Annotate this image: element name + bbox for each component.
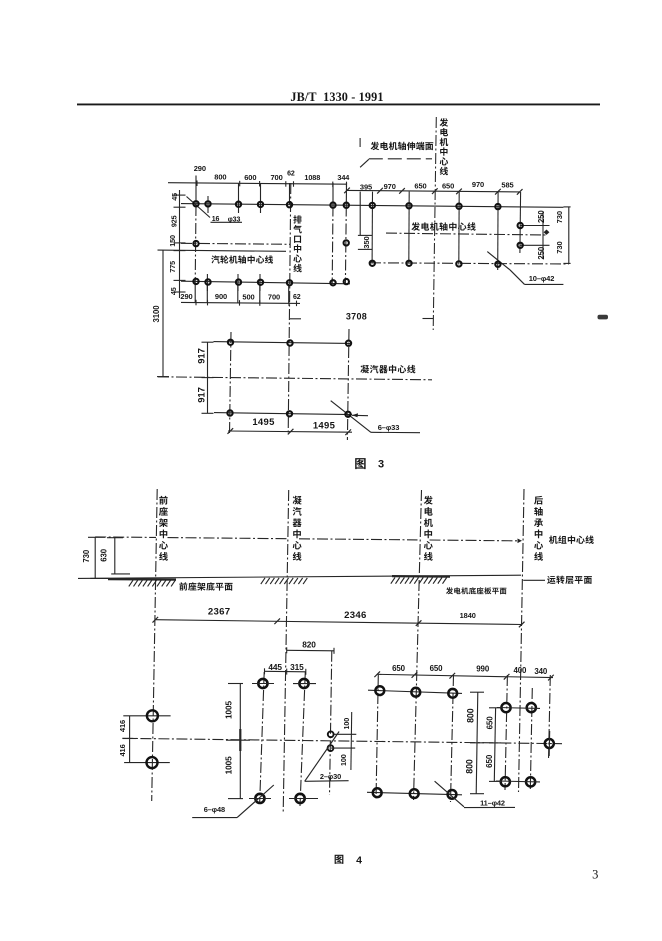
fig3 dim label 730 bottom bbox=[555, 241, 564, 253]
svg-text:2–φ30: 2–φ30 bbox=[320, 772, 341, 781]
fig3 leader shaft end face bbox=[360, 138, 432, 167]
fig4 leader 6-phi48 bbox=[192, 785, 274, 818]
fig4 far right hole bbox=[545, 731, 554, 756]
svg-text:650: 650 bbox=[430, 664, 444, 673]
header rule bbox=[77, 103, 600, 105]
fig3 hole column x520 bbox=[519, 192, 522, 253]
svg-text:970: 970 bbox=[384, 182, 396, 191]
svg-text:500: 500 bbox=[242, 292, 254, 301]
fig3 dim label 250 bottom bbox=[537, 246, 546, 259]
page number bbox=[592, 868, 598, 882]
fig3 dim line 730 vertical bbox=[563, 207, 570, 264]
svg-text:416: 416 bbox=[118, 744, 127, 756]
svg-text:6–φ48: 6–φ48 bbox=[204, 805, 225, 814]
svg-text:45: 45 bbox=[170, 193, 179, 201]
fig3 dim label 3708 bbox=[346, 311, 367, 321]
fig4 dim label 340 bbox=[534, 667, 548, 676]
fig3 label turbine shaft centre line bbox=[211, 255, 273, 263]
svg-text:16: 16 bbox=[212, 216, 220, 223]
fig4 dim 1005 line bbox=[226, 684, 250, 799]
fig3 hole row D line bbox=[181, 281, 350, 284]
svg-text:970: 970 bbox=[472, 180, 484, 189]
fig3 dim label 730 top bbox=[555, 211, 564, 223]
svg-text:3: 3 bbox=[592, 868, 598, 882]
svg-text:650: 650 bbox=[442, 181, 454, 190]
fig3 dim label 290 bottom bbox=[180, 292, 192, 301]
fig3 hole column x333 bbox=[331, 183, 334, 283]
fig3 leader 10-phi42 bbox=[487, 252, 563, 285]
fig4 label 6-phi48 bbox=[204, 805, 225, 814]
fig4 dim label 416 bottom bbox=[118, 744, 127, 756]
fig3 condenser top row line bbox=[214, 342, 351, 344]
fig3 hole row A line bbox=[181, 204, 563, 208]
fig4 rear bearing centre line bbox=[519, 489, 525, 792]
svg-text:800: 800 bbox=[465, 708, 475, 723]
fig3 dim label 650 right bbox=[442, 181, 454, 190]
fig3 dim label 344 bbox=[337, 173, 350, 182]
svg-text:3: 3 bbox=[378, 459, 384, 471]
svg-text:1495: 1495 bbox=[313, 420, 336, 431]
fig3 condenser holes bottom bbox=[227, 410, 350, 417]
fig4 hatch thick segment right bbox=[392, 575, 450, 578]
fig3 dim label 62 bottom bbox=[293, 294, 301, 301]
fig4 middle block column left bbox=[260, 672, 265, 802]
fig4 caption bbox=[335, 855, 362, 867]
fig4 hatch thick segment left bbox=[108, 578, 176, 581]
fig3 bottom dim line bbox=[181, 300, 300, 306]
fig4 label front pedestal centre line (vertical) bbox=[159, 496, 168, 561]
fig4 dim label 315 bbox=[290, 662, 304, 672]
fig4 middle block column right bbox=[300, 672, 305, 806]
fig3 holes row D bbox=[193, 279, 349, 286]
fig3 hole column x238.5 bbox=[237, 183, 240, 303]
svg-text:11–φ42: 11–φ42 bbox=[480, 799, 505, 808]
fig4 unit centre line bbox=[95, 537, 522, 543]
svg-text:650: 650 bbox=[392, 664, 406, 673]
fig4 dim label 2346 bbox=[344, 610, 367, 621]
fig4 right block holes bottom bbox=[373, 788, 457, 799]
fig4 dim label 730 bbox=[82, 549, 91, 562]
svg-text:400: 400 bbox=[513, 666, 527, 675]
fig3 dim line 250 vertical bbox=[520, 212, 549, 258]
fig4 dim label 630 bbox=[99, 548, 108, 561]
fig3 dim label 62 top bbox=[287, 170, 295, 177]
fig3 dim label 3100 bbox=[152, 305, 161, 323]
fig3 dim label 1495 right bbox=[313, 420, 336, 431]
fig3 dim 350 bbox=[358, 235, 372, 249]
svg-text:2346: 2346 bbox=[344, 610, 367, 621]
fig3 dim label 1088 bbox=[304, 173, 320, 182]
fig4 dim 730 bbox=[88, 537, 109, 578]
fig3 dim label 970 right bbox=[472, 180, 484, 189]
svg-text:416: 416 bbox=[118, 720, 127, 732]
fig4 dim label 1005 top bbox=[223, 700, 233, 719]
fig3 dim 3708 ticks bbox=[290, 318, 434, 320]
fig4 hatch strokes right bbox=[391, 578, 447, 584]
fig4 hatch strokes left bbox=[129, 580, 176, 586]
svg-text:925: 925 bbox=[170, 215, 179, 227]
fig3 condenser holes top bbox=[228, 340, 351, 346]
fig4 operating floor tick bbox=[523, 579, 545, 581]
fig3 label generator shaft centre line bbox=[411, 222, 475, 230]
fig4 label unit centre line bbox=[549, 535, 594, 543]
fig4 dim 100 lines bbox=[331, 712, 356, 770]
fig4 generator centre line bbox=[414, 490, 422, 800]
svg-text:700: 700 bbox=[268, 293, 280, 302]
fig3 label condenser centre line bbox=[360, 365, 415, 373]
fig3 condenser dim line 1495 bbox=[227, 428, 352, 435]
svg-text:730: 730 bbox=[555, 241, 564, 253]
fig3 leader 16-phi33 bbox=[187, 197, 243, 223]
fig3 dim label 925 bbox=[170, 215, 179, 227]
fig3 dim line row1 bbox=[168, 180, 347, 187]
svg-text:1088: 1088 bbox=[304, 173, 320, 182]
svg-text:350: 350 bbox=[362, 236, 371, 248]
svg-text:290: 290 bbox=[194, 164, 206, 173]
fig4 right block column x531 bbox=[530, 688, 532, 790]
fig3 hole column x372 bbox=[371, 192, 373, 264]
svg-text:650: 650 bbox=[414, 181, 426, 190]
fig4 dim label 820 bbox=[302, 640, 316, 650]
svg-text:730: 730 bbox=[555, 211, 564, 223]
fig4 middle block holes bottom bbox=[249, 794, 318, 803]
fig3 dim label 150 bbox=[168, 235, 177, 247]
fig4 right block column x377 bbox=[376, 675, 378, 800]
fig3 dim line 3100 vertical bbox=[157, 250, 169, 377]
svg-text:344: 344 bbox=[337, 173, 350, 182]
fig3 dim label 45 top bbox=[170, 193, 179, 201]
fig4 left block holes bbox=[147, 710, 158, 768]
svg-text:700: 700 bbox=[270, 173, 282, 182]
fig3 hole column x459 bbox=[458, 192, 460, 265]
fig4 hatch strokes middle bbox=[261, 578, 308, 584]
fig4 dim line 2367-2346-1840 bbox=[152, 617, 524, 627]
fig3 holes row C bbox=[370, 261, 501, 267]
fig3 label 16 phi33 bbox=[212, 216, 241, 223]
fig3 hole column x409 bbox=[408, 192, 410, 264]
svg-text:10–φ42: 10–φ42 bbox=[529, 274, 555, 283]
fig3 dim label 45 bottom bbox=[169, 287, 178, 295]
fig3 dim label 700 bbox=[270, 173, 282, 182]
fig3 label generator shaft end face bbox=[371, 142, 434, 150]
fig4 dim label 100 top bbox=[342, 718, 351, 730]
fig3 dim label 775 bbox=[168, 261, 177, 273]
fig4 dim label 445 bbox=[268, 662, 282, 672]
svg-text:585: 585 bbox=[501, 181, 513, 190]
fig3 dim label 1495 left bbox=[252, 417, 275, 428]
fig3 holes row B bbox=[193, 240, 349, 246]
fig3 hole column x208 bbox=[206, 196, 209, 303]
fig4 dim label 800 bottom bbox=[464, 759, 474, 774]
svg-text:445: 445 bbox=[268, 662, 282, 672]
fig4 right block top dim line bbox=[374, 671, 553, 680]
fig3 dim label 600 bbox=[244, 173, 256, 182]
fig3 exhaust-condenser centre column bbox=[288, 183, 291, 434]
fig3 generator centre line vertical bbox=[433, 117, 436, 330]
svg-text:JB/T 1330 - 1991: JB/T 1330 - 1991 bbox=[290, 90, 383, 104]
svg-text:820: 820 bbox=[302, 640, 316, 650]
fig3 dim label 650 left bbox=[414, 181, 426, 190]
ink speck bbox=[598, 315, 609, 320]
fig3 line over turbine label bbox=[158, 250, 287, 251]
svg-text:290: 290 bbox=[180, 292, 192, 301]
fig4 dim label 650 top vertical bbox=[485, 716, 494, 730]
fig3 dim label 970 left bbox=[384, 182, 396, 191]
svg-text:650: 650 bbox=[485, 754, 494, 768]
fig3 leader 6-phi33 bbox=[331, 401, 420, 433]
fig3 dim label 800 bbox=[214, 173, 226, 182]
fig3 dim line 917 vertical bbox=[202, 342, 214, 414]
fig4 dim label 1840 bbox=[460, 611, 476, 620]
svg-text:315: 315 bbox=[290, 662, 304, 672]
svg-text:φ33: φ33 bbox=[228, 216, 241, 223]
fig4 label 11-phi42 bbox=[480, 799, 505, 808]
fig3 label 6-phi33 bbox=[378, 423, 400, 432]
fig4 leader 11-phi42 bbox=[435, 781, 515, 807]
fig4 right block column x452 bbox=[451, 675, 454, 802]
fig4 small hole column bbox=[330, 651, 332, 795]
svg-text:2367: 2367 bbox=[208, 607, 231, 618]
fig4 label condenser centre line (vertical) bbox=[293, 496, 302, 561]
fig4 sub-block holes top bbox=[497, 703, 540, 712]
fig3 dim label 917 top bbox=[196, 348, 207, 364]
fig3 dim label 395 bbox=[360, 183, 372, 192]
fig4 dim label 650 bottom vertical bbox=[485, 754, 494, 768]
svg-text:917: 917 bbox=[196, 387, 207, 403]
fig4 dim label 400 bbox=[513, 666, 527, 675]
fig4 front pedestal centre line bbox=[152, 489, 158, 801]
fig4 machine axis centre line bbox=[122, 738, 562, 743]
svg-text:1840: 1840 bbox=[460, 611, 476, 620]
fig4 leader 2-phi30 bbox=[305, 732, 349, 782]
fig4 middle block holes top bbox=[252, 679, 316, 688]
svg-text:395: 395 bbox=[360, 183, 372, 192]
svg-text:600: 600 bbox=[244, 173, 256, 182]
fig4 dim label 990 bbox=[476, 665, 490, 674]
fig3 left dim line with ticks bbox=[174, 190, 186, 298]
svg-text:100: 100 bbox=[339, 754, 348, 766]
fig3 condenser column x348 bbox=[347, 329, 349, 440]
fig3 dim line row2 bbox=[344, 188, 522, 195]
fig4 dim label 650 a bbox=[392, 664, 406, 673]
fig4 condenser centre line bbox=[283, 490, 289, 812]
fig3 turbine middle row line bbox=[181, 243, 290, 244]
fig4 dim 820 bbox=[287, 647, 335, 654]
fig4 label 2-phi30 bbox=[320, 772, 341, 781]
svg-text:1005: 1005 bbox=[223, 756, 233, 775]
fig3 dim label 900 bbox=[215, 292, 227, 301]
fig3 hole column x289.5 bbox=[288, 183, 291, 303]
svg-text:900: 900 bbox=[215, 292, 227, 301]
fig3 condenser column x230 bbox=[230, 332, 232, 434]
fig3 label exhaust port centre line (vertical) bbox=[293, 215, 302, 272]
fig4 label front pedestal bottom plane bbox=[179, 582, 232, 590]
fig4 dim label 2367 bbox=[208, 607, 231, 618]
fig3 condenser centre line horizontal bbox=[158, 377, 432, 380]
fig3 label 10-phi42 bbox=[529, 274, 555, 283]
fig4 right block column x549 bbox=[549, 675, 551, 760]
svg-text:250: 250 bbox=[537, 246, 546, 259]
fig3 holes right pair bbox=[518, 223, 523, 248]
svg-text:250: 250 bbox=[537, 210, 546, 223]
fig4 left block dim 416 bbox=[122, 716, 170, 763]
fig4 dim 650 line bbox=[489, 708, 501, 782]
fig3 hole row C line bbox=[370, 263, 569, 264]
fig3 label generator centre line (vertical) bbox=[440, 118, 449, 175]
fig4 holes 2-phi30 bbox=[328, 731, 334, 751]
fig4 label generator centre line (vertical) bbox=[424, 496, 433, 561]
svg-text:650: 650 bbox=[485, 716, 494, 730]
svg-text:6–φ33: 6–φ33 bbox=[378, 423, 400, 432]
svg-text:62: 62 bbox=[293, 294, 301, 301]
fig3 condenser bottom row line bbox=[214, 413, 352, 415]
fig3 dim label 585 bbox=[501, 181, 513, 190]
fig4 right block row A line bbox=[368, 690, 462, 693]
fig4 dim label 800 top bbox=[465, 708, 475, 723]
svg-text:990: 990 bbox=[476, 665, 490, 674]
fig3 dim label 917 bottom bbox=[196, 387, 207, 403]
svg-text:45: 45 bbox=[169, 287, 178, 295]
svg-text:1495: 1495 bbox=[252, 417, 275, 428]
svg-text:62: 62 bbox=[287, 170, 295, 177]
svg-text:4: 4 bbox=[356, 855, 362, 867]
svg-text:917: 917 bbox=[196, 348, 207, 364]
svg-text:775: 775 bbox=[168, 261, 177, 273]
svg-text:3708: 3708 bbox=[346, 311, 367, 321]
svg-text:630: 630 bbox=[99, 548, 108, 561]
fig3 holes row A bbox=[193, 201, 500, 209]
fig4 dim 800 line bbox=[470, 692, 484, 794]
fig4 dim label 416 top bbox=[118, 720, 127, 732]
svg-text:3100: 3100 bbox=[152, 305, 161, 323]
fig4 label operating floor plane bbox=[547, 576, 592, 584]
fig3 caption bbox=[355, 458, 384, 470]
svg-text:150: 150 bbox=[168, 235, 177, 247]
fig3 dim label 350 bbox=[362, 236, 371, 248]
fig4 right block bottom row line bbox=[367, 792, 462, 795]
fig4 foundation line bbox=[78, 575, 521, 578]
fig4 dim label 100 bottom bbox=[339, 754, 348, 766]
fig4 dim label 1005 bottom bbox=[223, 756, 233, 775]
fig4 dim 630 bbox=[107, 538, 130, 574]
fig3 shaft-end-face line x360 bbox=[359, 192, 361, 236]
svg-text:800: 800 bbox=[464, 759, 474, 774]
svg-text:730: 730 bbox=[82, 549, 91, 562]
fig4 sub-block holes bottom bbox=[496, 777, 540, 786]
fig4 dim label 650 b bbox=[430, 664, 444, 673]
fig4 label generator base plane bbox=[446, 587, 507, 594]
fig3 dim label 500 bbox=[242, 292, 254, 301]
svg-text:340: 340 bbox=[534, 667, 548, 676]
fig3 hole column x260.5 bbox=[259, 183, 262, 303]
svg-text:100: 100 bbox=[342, 718, 351, 730]
fig3 dim label 700 bottom bbox=[268, 293, 280, 302]
fig3 hole column x196 bbox=[194, 176, 197, 304]
fig3 dim label 290 bbox=[194, 164, 206, 173]
fig4 dim 445-315 bbox=[265, 668, 306, 675]
header title JB/T 1330-1991 bbox=[290, 90, 383, 104]
fig4 right block column x506 bbox=[505, 675, 507, 790]
svg-text:1005: 1005 bbox=[223, 700, 233, 719]
fig3 hole column x498 bbox=[497, 192, 499, 270]
fig4 right block holes row A bbox=[375, 686, 457, 698]
fig3 hole column x346 bbox=[345, 183, 346, 283]
fig3 dim label 250 top bbox=[537, 210, 546, 223]
svg-text:800: 800 bbox=[214, 173, 226, 182]
fig3 generator shaft centre line bbox=[386, 230, 549, 236]
fig4 label rear bearing centre line (vertical) bbox=[534, 496, 543, 561]
